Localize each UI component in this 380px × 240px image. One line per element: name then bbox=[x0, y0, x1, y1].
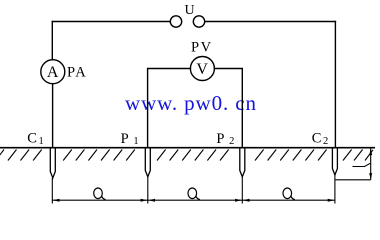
svg-text:2: 2 bbox=[323, 136, 328, 147]
voltmeter PV circle bbox=[190, 57, 214, 81]
wire left vertical branch down to ammeter bbox=[51, 22, 53, 60]
depth arrowhead down bbox=[369, 173, 372, 180]
extension line below P2 bbox=[241, 177, 243, 204]
label a1 bbox=[94, 188, 103, 199]
electrode P1 bbox=[145, 148, 150, 177]
arrowhead a2 right bbox=[235, 199, 242, 202]
electrode C2 bbox=[332, 148, 337, 175]
wire voltmeter left leg down to P1 electrode bbox=[148, 69, 191, 148]
arrowhead a2 left bbox=[148, 199, 155, 202]
earth hatching bbox=[0, 150, 373, 161]
wire ammeter to C1 electrode bbox=[52, 84, 54, 148]
svg-text:C: C bbox=[27, 130, 37, 146]
electrode P2 bbox=[240, 148, 245, 177]
depth leader line bbox=[353, 163, 371, 166]
electrode C1 bbox=[50, 148, 55, 178]
label a2 bbox=[188, 188, 197, 199]
svg-text:U: U bbox=[185, 3, 195, 18]
svg-text:P: P bbox=[121, 131, 129, 147]
svg-text:V: V bbox=[196, 61, 208, 78]
wire voltmeter right leg down to P2 electrode bbox=[214, 69, 242, 148]
ground surface line bbox=[0, 147, 375, 149]
svg-text:2: 2 bbox=[229, 136, 234, 147]
svg-text:www. pw0. cn: www. pw0. cn bbox=[125, 91, 257, 115]
terminal U right circle bbox=[193, 16, 204, 27]
ammeter PA circle bbox=[41, 60, 65, 84]
svg-text:1: 1 bbox=[39, 136, 44, 147]
arrowhead a3 left bbox=[243, 199, 250, 202]
depth dimension vertical line bbox=[370, 148, 372, 179]
depth arrowhead up bbox=[369, 148, 372, 155]
arrowhead a1 right bbox=[141, 199, 148, 202]
wire right vertical branch down to C2 electrode bbox=[334, 22, 336, 148]
extension line below C2 bbox=[334, 175, 336, 204]
arrowhead a3 right bbox=[328, 199, 335, 202]
wire top-left horizontal from ammeter branch to source terminal bbox=[52, 21, 170, 23]
label a3 bbox=[283, 188, 292, 199]
svg-text:C: C bbox=[312, 130, 322, 146]
svg-text:A: A bbox=[47, 64, 59, 81]
depth dimension bottom line bbox=[336, 179, 371, 181]
svg-text:PA: PA bbox=[67, 65, 87, 81]
svg-text:PV: PV bbox=[191, 39, 213, 55]
terminal U left circle bbox=[170, 16, 181, 27]
arrowhead a1 left bbox=[53, 199, 60, 202]
extension line below C1 bbox=[51, 178, 53, 204]
extension line below P1 bbox=[147, 177, 149, 204]
svg-text:1: 1 bbox=[133, 136, 138, 147]
dimension line spacing a bbox=[52, 199, 335, 201]
wire top-right horizontal from source terminal to right branch bbox=[205, 21, 336, 23]
svg-text:P: P bbox=[216, 131, 224, 147]
